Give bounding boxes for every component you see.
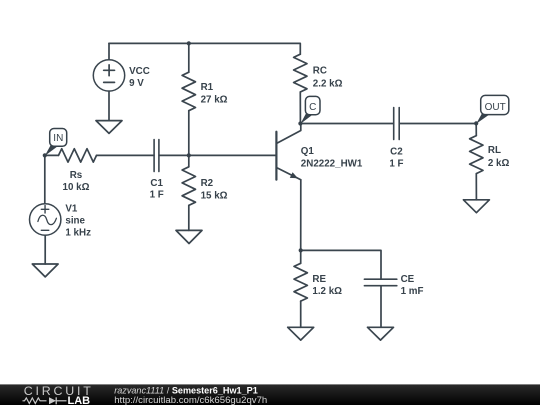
transistor Q1 collector lead	[276, 124, 300, 144]
svg-text:V1: V1	[65, 204, 78, 215]
flag C bubble	[305, 96, 320, 114]
wire node B to base	[189, 154, 276, 156]
wire VCC bottom	[108, 91, 110, 121]
logo diode symbol	[49, 397, 56, 404]
svg-text:1 F: 1 F	[389, 158, 403, 169]
ground R2	[176, 230, 202, 243]
svg-text:9 V: 9 V	[129, 78, 144, 89]
wire C1 to node B	[159, 154, 189, 156]
node E junction	[299, 248, 303, 252]
node junction top rail	[187, 41, 191, 45]
transistor Q1 emitter arrow	[290, 172, 298, 178]
node B junction	[187, 153, 191, 157]
svg-text:razvanc1111 / Semester6_Hw1_P1: razvanc1111 / Semester6_Hw1_P1	[114, 385, 258, 395]
wire VCC top stub	[108, 43, 110, 59]
wire R2 bottom	[188, 205, 190, 230]
wire RE top	[300, 250, 302, 263]
svg-text:2 kΩ: 2 kΩ	[488, 158, 510, 169]
wire node E to CE	[301, 250, 381, 278]
svg-text:sine: sine	[65, 216, 85, 227]
svg-text:OUT: OUT	[485, 102, 506, 113]
wire R1 bottom	[188, 111, 190, 156]
resistor RL	[470, 136, 483, 174]
capacitor C1 plates	[154, 140, 159, 172]
svg-text:1 kHz: 1 kHz	[65, 228, 91, 239]
wire base rail Rs to C1	[45, 154, 59, 156]
svg-text:Rs: Rs	[70, 170, 83, 181]
wire R2 top	[188, 155, 190, 166]
node C junction	[298, 121, 302, 125]
resistor Rs	[59, 149, 97, 162]
svg-text:IN: IN	[53, 133, 63, 144]
flag OUT pointer	[476, 113, 489, 124]
svg-text:15 kΩ: 15 kΩ	[201, 190, 228, 201]
wire collector to C2	[300, 123, 393, 125]
resistor RC	[294, 54, 307, 92]
wire IN node down	[44, 155, 46, 203]
logo resistor squiggle	[23, 398, 47, 404]
capacitor C2 plates	[394, 108, 400, 140]
flag IN bubble	[50, 129, 67, 147]
wire RC bottom	[299, 92, 301, 124]
wire RL bottom	[475, 174, 477, 200]
svg-text:CE: CE	[401, 274, 415, 285]
node IN junction	[43, 153, 47, 157]
svg-text:C: C	[309, 102, 316, 113]
svg-text:1.2 kΩ: 1.2 kΩ	[312, 286, 342, 297]
svg-text:RC: RC	[313, 66, 327, 77]
svg-text:RE: RE	[312, 274, 326, 285]
flag OUT bubble	[481, 95, 509, 114]
wire C2 to OUT node	[399, 123, 476, 125]
voltage source V1 circle	[30, 204, 61, 235]
ground RL	[463, 200, 489, 213]
wire top rail right	[189, 43, 300, 54]
ground V1	[32, 264, 58, 277]
svg-text:2.2 kΩ: 2.2 kΩ	[313, 78, 343, 89]
svg-text:C1: C1	[150, 178, 163, 189]
flag IN pointer	[45, 145, 57, 156]
resistor R1	[182, 72, 195, 111]
svg-text:2N2222_HW1: 2N2222_HW1	[301, 158, 363, 169]
VCC minus sign	[104, 81, 115, 83]
svg-text:http://circuitlab.com/c6k656gu: http://circuitlab.com/c6k656gu2qv7h	[114, 395, 267, 405]
flag C pointer	[300, 113, 312, 124]
svg-text:1 F: 1 F	[150, 190, 164, 201]
transistor Q1 emitter lead	[276, 168, 300, 180]
wire RL top	[475, 124, 477, 136]
transistor Q1 base bar	[275, 132, 277, 180]
voltage source VCC circle	[93, 60, 124, 91]
wire emitter down	[300, 180, 302, 251]
VCC plus sign	[104, 65, 115, 76]
svg-text:R1: R1	[201, 82, 214, 93]
ground RE	[288, 327, 314, 340]
svg-text:R2: R2	[201, 178, 214, 189]
resistor R2	[182, 167, 195, 206]
wire V1 bottom	[44, 235, 46, 264]
capacitor CE plates	[364, 279, 396, 286]
ground VCC	[96, 121, 122, 134]
svg-text:Q1: Q1	[301, 146, 315, 157]
svg-text:RL: RL	[488, 145, 501, 156]
node OUT junction	[474, 121, 478, 125]
wire top rail left	[109, 42, 189, 44]
V1 minus sign	[41, 229, 49, 231]
V1 sine symbol	[38, 215, 57, 224]
svg-text:10 kΩ: 10 kΩ	[63, 182, 90, 193]
wire R1 top	[188, 43, 190, 72]
ground CE	[368, 327, 394, 340]
wire CE bottom	[380, 286, 382, 327]
svg-text:C2: C2	[390, 146, 403, 157]
resistor RE	[294, 263, 307, 301]
wire Rs to C1	[97, 154, 154, 156]
svg-text:1 mF: 1 mF	[401, 286, 424, 297]
svg-text:LAB: LAB	[68, 395, 91, 405]
svg-text:27 kΩ: 27 kΩ	[201, 94, 228, 105]
V1 plus sign	[41, 206, 49, 213]
svg-text:VCC: VCC	[129, 66, 150, 77]
wire RE bottom	[300, 301, 302, 327]
